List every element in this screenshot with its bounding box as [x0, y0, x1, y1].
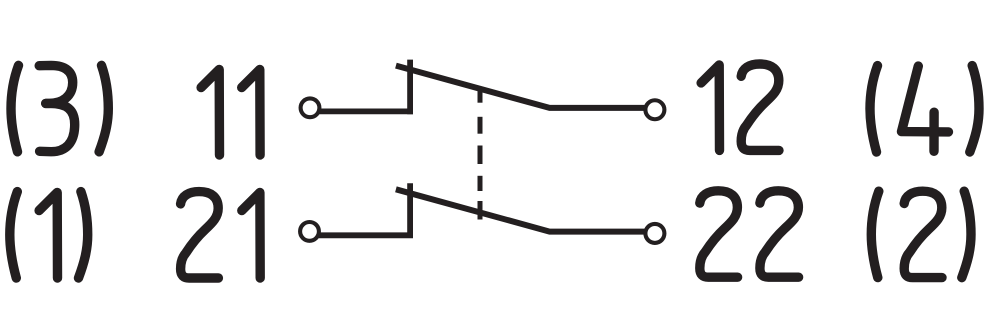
label (1): [10, 192, 17, 278]
wire left 21-22: [319, 232, 414, 238]
fixed contact vertical 21-22: [407, 183, 413, 238]
terminal circle 11-12b: [645, 100, 664, 119]
moving contact blade 21-22: [396, 189, 646, 231]
terminal circle 21-22b: [645, 224, 664, 243]
label 12: [701, 65, 719, 150]
label 11: [201, 70, 219, 156]
fixed contact vertical 11-12: [407, 60, 413, 115]
label (4): [870, 66, 878, 152]
wire left 11-12: [319, 109, 413, 115]
label (2): [871, 191, 879, 277]
label 22: [700, 191, 738, 277]
label (3): [11, 65, 19, 151]
terminal circle 21-22a: [300, 222, 319, 241]
mechanical coupling dashed line: [478, 87, 483, 103]
label 21: [181, 192, 219, 278]
moving contact blade 11-12: [396, 66, 646, 108]
terminal circle 11-12a: [301, 98, 320, 117]
